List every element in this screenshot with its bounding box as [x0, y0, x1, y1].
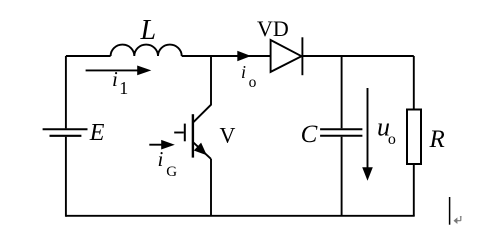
wire top right (diode to right corner) [302, 55, 413, 57]
transistor V IGBT [174, 114, 211, 159]
svg-text:R: R [429, 126, 445, 153]
wire transistor collector [194, 56, 212, 122]
diode VD [271, 40, 302, 72]
svg-text:o: o [388, 131, 396, 148]
capacitor C [320, 129, 362, 136]
voltage arrow uo [362, 88, 373, 181]
wire bottom [66, 215, 415, 217]
svg-text:VD: VD [257, 16, 289, 41]
svg-text:i: i [158, 147, 164, 171]
svg-text:1: 1 [119, 78, 128, 98]
source E battery [43, 129, 88, 136]
wire left lower (source to bottom corner) [65, 137, 67, 217]
svg-text:V: V [220, 122, 236, 147]
wire right lower (resistor to bottom) [413, 164, 415, 216]
wire right upper (to resistor) [413, 56, 415, 110]
svg-text:i: i [241, 62, 246, 82]
svg-text:i: i [112, 67, 118, 91]
inductor L [111, 45, 182, 56]
paragraph return mark [454, 216, 462, 224]
svg-text:o: o [249, 74, 257, 91]
svg-text:C: C [301, 121, 318, 148]
text cursor artifact [449, 197, 451, 225]
wire capacitor branch lower [341, 137, 343, 216]
resistor R [407, 110, 421, 165]
svg-text:G: G [166, 164, 177, 180]
gate current arrow iG [149, 140, 175, 150]
wire top middle (inductor to diode) [182, 55, 271, 57]
svg-text:E: E [89, 120, 105, 146]
svg-text:L: L [140, 15, 157, 46]
wire transistor emitter [210, 159, 212, 216]
wire top-left segment [66, 55, 111, 57]
current arrow i1 [86, 66, 152, 76]
wire left upper (top corner to source) [65, 56, 67, 128]
wire capacitor branch upper [341, 56, 343, 128]
current arrow io head [237, 51, 251, 61]
